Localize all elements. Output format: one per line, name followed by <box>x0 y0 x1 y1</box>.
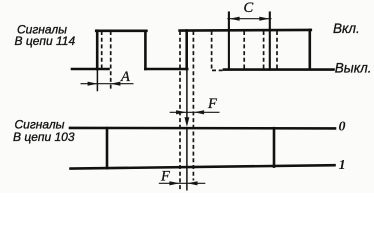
wire: dashed edge A-left <box>101 31 103 70</box>
wire: long dashed line F-left <box>179 31 181 191</box>
arrowhead: C right (points right) <box>259 17 269 21</box>
svg-text:F: F <box>160 168 170 184</box>
svg-text:Выкл.: Выкл. <box>335 60 372 75</box>
wire: top of pulse 1 <box>96 29 146 32</box>
wire: dashed falling edge at 211 <box>211 31 213 70</box>
wire: dashed alternative edges <box>102 31 277 191</box>
svg-text:A: A <box>120 69 130 85</box>
svg-text:C: C <box>244 0 254 16</box>
wire: falling edge last <box>308 30 311 69</box>
label: Сигналы В цепи 103 <box>13 118 75 144</box>
wire: dashed edge at 277 <box>276 31 278 70</box>
wire: top of pulse 2 <box>180 29 311 32</box>
wire: dashed edge A-right <box>110 31 112 91</box>
svg-text:1: 1 <box>339 158 346 173</box>
arrowhead: sampling arrow down <box>185 117 190 127</box>
wire: low segment between pulses <box>145 68 187 71</box>
wire: signal 114 solid waveform <box>72 13 334 91</box>
wire: edge at 274 <box>273 128 276 166</box>
dimension C <box>227 18 271 20</box>
wire: low segment before pulse 1 <box>72 68 109 71</box>
wire: rising edge pulse 1 <box>96 31 99 69</box>
arrowhead: C left (points left) <box>229 17 239 21</box>
label: Сигналы В цепи 114 <box>15 23 76 49</box>
wire: long dashed line F-right <box>192 31 194 181</box>
wire: solid edge at C right extension <box>269 13 271 70</box>
arrowhead: F lower right <box>187 181 197 185</box>
wire: dashed edge at 244 <box>243 31 245 70</box>
wire: edge at 107 <box>106 128 109 168</box>
wire: dashed low segment after 211 <box>212 69 224 71</box>
wire: sampling line with down arrow <box>186 69 188 191</box>
svg-text:0: 0 <box>339 119 346 134</box>
dimension A <box>81 83 134 85</box>
arrowhead: F upper left <box>176 110 186 114</box>
wire: extension of rising edge below low line <box>96 69 98 91</box>
dimension F upper <box>170 111 220 113</box>
svg-text:F: F <box>207 96 217 112</box>
wire: 0 level line <box>70 127 335 130</box>
wire: 1 level line <box>71 165 335 168</box>
wire: falling edge pulse 1 <box>144 31 147 69</box>
wire: rising edge pulse 2 <box>185 31 188 70</box>
svg-text:В цепи 114: В цепи 114 <box>15 34 76 48</box>
wire: solid edge at C left extension <box>228 13 230 70</box>
arrowhead: A left <box>88 82 98 86</box>
wire: low segment right <box>224 68 334 71</box>
svg-text:Вкл.: Вкл. <box>333 21 360 36</box>
dimension F lower <box>159 182 206 184</box>
arrowhead: F lower left <box>169 181 179 185</box>
arrowhead: F upper right <box>194 110 204 114</box>
wire: signal 103 waveform <box>70 128 335 169</box>
arrowhead: A right <box>110 82 120 86</box>
wire: dashed edge at 263 <box>263 31 265 70</box>
svg-text:В цепи 103: В цепи 103 <box>13 130 75 144</box>
